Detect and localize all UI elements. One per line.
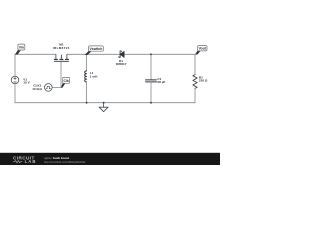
footer credit line — [44, 156, 69, 160]
CircuitLab logo — [13, 156, 36, 165]
svg-text:Vout: Vout — [199, 47, 207, 51]
wire inductor branch lower — [86, 82, 88, 103]
resistor R1 — [193, 75, 197, 89]
svg-text:IRLB8721: IRLB8721 — [53, 46, 70, 50]
wire top rail right segment — [124, 53, 195, 55]
label C1 68 uF — [157, 77, 165, 84]
wire gate lead — [60, 62, 62, 88]
wire clock to gate — [52, 87, 61, 89]
wire resistor branch lower — [194, 88, 196, 102]
net flag Vout — [195, 46, 207, 55]
inductor L1 — [85, 71, 87, 82]
value label V1 10 V — [23, 77, 30, 84]
svg-text:68 µF: 68 µF — [157, 80, 165, 84]
junction inductor bottom — [86, 102, 88, 104]
svg-text:ogira / buck boost: ogira / buck boost — [44, 156, 69, 160]
label R1 220 Ohm — [199, 75, 208, 82]
voltage source V1 — [11, 76, 19, 84]
svg-text:1N5817: 1N5817 — [116, 62, 127, 66]
junction inductor top — [86, 53, 88, 55]
footer banner — [0, 153, 220, 165]
capacitor C1 — [146, 80, 157, 82]
wire capacitor branch upper — [150, 54, 152, 80]
svg-text:1 mH: 1 mH — [90, 75, 98, 79]
svg-text:LAB: LAB — [25, 159, 37, 164]
transistor M1 (NMOS IRLB8721) — [54, 54, 69, 61]
label L1 1 mH — [90, 71, 98, 78]
svg-text:220 Ω: 220 Ω — [199, 78, 208, 82]
clock source CLK1 — [45, 84, 53, 92]
footer url line — [44, 160, 86, 164]
net flag Vin — [15, 44, 25, 54]
svg-text:Clk: Clk — [64, 79, 69, 83]
svg-text:Vswitch: Vswitch — [90, 47, 103, 51]
value label CLK1 10 kHz — [32, 84, 42, 91]
svg-text:10 V: 10 V — [23, 81, 30, 85]
wire resistor branch upper — [194, 54, 196, 74]
wire bottom rail — [15, 102, 195, 104]
label M1 IRLB8721 — [53, 43, 70, 51]
junction capacitor bottom — [150, 102, 152, 104]
diode D1 (1N5817 Schottky) — [119, 51, 124, 58]
wire left branch upper — [14, 54, 16, 76]
svg-text:10 kHz: 10 kHz — [32, 87, 42, 91]
junction capacitor top — [150, 53, 152, 55]
net flag Vswitch — [85, 46, 104, 55]
svg-text:Vin: Vin — [19, 46, 24, 50]
ground — [99, 102, 108, 112]
wire inductor branch upper — [86, 54, 88, 71]
wire top rail middle segment — [67, 53, 120, 55]
label D1 1N5817 — [116, 59, 127, 66]
wire left branch lower — [14, 84, 16, 103]
wire top rail left segment — [15, 53, 56, 55]
net flag Clk — [61, 77, 70, 87]
wire capacitor branch lower — [150, 82, 152, 103]
